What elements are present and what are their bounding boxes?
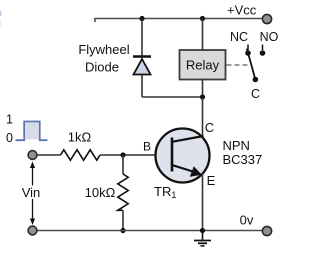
wire relay branch top	[202, 19, 204, 51]
node junction relay-top on Vcc rail	[200, 16, 205, 21]
svg-text:C: C	[251, 87, 260, 101]
wire 10k top	[122, 155, 124, 174]
wire bottom 0v rail	[37, 230, 263, 232]
svg-text:1kΩ: 1kΩ	[68, 130, 92, 145]
svg-text:0v: 0v	[240, 213, 254, 228]
wire diode branch vertical top	[141, 19, 143, 57]
svg-text:Flywheel: Flywheel	[78, 42, 129, 57]
node collector junction	[200, 94, 205, 99]
ground symbol	[194, 231, 211, 246]
wire top +Vcc rail	[95, 19, 262, 23]
input terminal Vin bottom	[28, 226, 37, 235]
node 10k bottom junction	[120, 228, 125, 233]
node ground junction	[200, 228, 205, 233]
svg-text:Diode: Diode	[85, 60, 119, 75]
resistor R1 1k	[61, 150, 101, 160]
switch lever C to NC	[247, 49, 256, 80]
resistor R2 10k	[118, 174, 128, 210]
switch contact NO	[260, 45, 266, 56]
input terminal Vin top	[28, 151, 37, 160]
svg-text:E: E	[207, 173, 216, 188]
wire collector	[202, 97, 204, 139]
switch contact NC	[247, 45, 249, 51]
transistor emitter stroke with arrow	[172, 165, 202, 177]
svg-text:0: 0	[6, 131, 13, 145]
wire diode-bottom to collector node	[142, 96, 203, 98]
svg-text:Vin: Vin	[22, 185, 41, 200]
wire emitter down	[202, 173, 204, 231]
dashed mechanical link relay to switch	[227, 64, 250, 66]
svg-text:NPN: NPN	[223, 138, 250, 153]
svg-text:C: C	[205, 120, 214, 135]
Vin measurement arrow	[30, 162, 35, 226]
svg-text:NO: NO	[260, 30, 279, 44]
node base junction	[120, 152, 125, 157]
wire diode branch vertical bottom	[141, 75, 143, 98]
edge artifact top-left	[0, 11, 2, 27]
label Flywheel Diode	[78, 42, 129, 75]
label Vin	[20, 185, 43, 200]
node junction diode-top on Vcc rail	[139, 16, 144, 21]
svg-text:BC337: BC337	[223, 152, 263, 167]
diode D1 flywheel	[133, 57, 151, 75]
switch contact C	[253, 77, 259, 83]
svg-text:Relay: Relay	[186, 58, 220, 73]
transistor Q1 body	[156, 129, 210, 183]
+Vcc terminal	[262, 14, 271, 23]
wire relay branch bottom	[202, 80, 204, 98]
svg-text:10kΩ: 10kΩ	[85, 185, 116, 200]
svg-text:NC: NC	[230, 30, 248, 44]
0v terminal	[262, 226, 271, 235]
svg-text:1: 1	[6, 113, 13, 127]
relay coil box	[180, 50, 226, 80]
transistor base bar	[171, 138, 174, 172]
svg-text:B: B	[143, 139, 151, 153]
logic pulse symbol	[16, 122, 48, 141]
wire input to resistor	[37, 154, 61, 156]
svg-text:+Vcc: +Vcc	[227, 3, 257, 18]
wire resistor to base	[100, 154, 157, 156]
wire 10k bottom	[122, 210, 124, 230]
transistor collector stroke	[172, 136, 204, 142]
